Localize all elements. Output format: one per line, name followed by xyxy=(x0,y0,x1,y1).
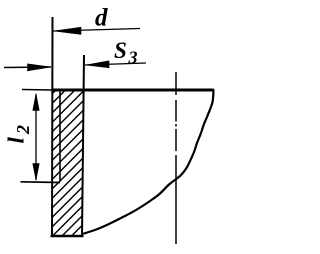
inner pipe end tick (l2 lower extension line) xyxy=(21,181,61,184)
dimension l2: vertical dimension line xyxy=(35,94,37,180)
inner pipe wall boundary line xyxy=(59,91,61,182)
centerline (pipe axis, dash-dot) xyxy=(175,72,177,244)
dimension l2: lower arrowhead xyxy=(33,164,40,181)
dimension d: arrowhead xyxy=(54,27,82,34)
flare curve (socket bell inner contour) xyxy=(84,90,214,234)
dimension d: dimension line xyxy=(53,29,140,32)
dimension S3: right-pointing arrowhead xyxy=(28,64,52,71)
svg-text:2: 2 xyxy=(13,125,33,135)
svg-text:S: S xyxy=(114,38,127,63)
wall bottom edge xyxy=(51,235,84,238)
wall left edge (also extension line for d dimension) xyxy=(51,17,54,237)
svg-text:d: d xyxy=(95,5,108,32)
pipe socket top surface (thick contour line) xyxy=(52,89,214,92)
wire: thin left extension of top surface line (l2 upper extension) xyxy=(22,89,52,92)
dimension l2: label (rotated) xyxy=(4,125,34,144)
dimension S3: opposite outside arrow line at left xyxy=(4,66,51,69)
dimension l2: upper arrowhead xyxy=(33,94,40,111)
wall right edge (extends up as extension line for S3) xyxy=(82,55,84,236)
svg-text:3: 3 xyxy=(128,48,138,68)
hatching of wall cross-section xyxy=(50,60,86,254)
dimension S3: arrowhead xyxy=(86,61,110,68)
svg-text:l: l xyxy=(4,137,29,144)
dimension S3: dimension line with left-pointing arrow xyxy=(85,63,146,65)
